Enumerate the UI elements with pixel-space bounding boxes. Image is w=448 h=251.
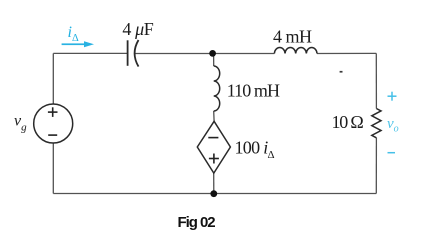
inductor L1 4mH: [274, 47, 317, 53]
svg-text:iΔ: iΔ: [68, 24, 79, 44]
wire middle between inductor and source: [213, 111, 215, 121]
svg-text:4 μF: 4 μF: [122, 19, 153, 39]
dependent source minus sign: [208, 137, 218, 139]
voltage source plus sign: [48, 107, 58, 117]
dependent source plus sign: [209, 154, 219, 164]
wire bottom: [53, 193, 376, 195]
svg-text:100 iΔ: 100 iΔ: [235, 137, 275, 161]
svg-text:110 mH: 110 mH: [227, 81, 280, 101]
wire top right segment: [317, 52, 376, 54]
voltage source minus sign: [48, 134, 57, 136]
wire middle lower: [213, 173, 215, 193]
wire top middle segment: [135, 53, 275, 55]
svg-text:10 Ω: 10 Ω: [332, 112, 364, 132]
resistor R 10ohm: [372, 109, 381, 138]
wire right upper: [375, 53, 377, 108]
wire left lower: [52, 143, 54, 194]
wire right lower: [375, 138, 377, 194]
voltage source Vg circle: [34, 104, 73, 143]
svg-text:vo: vo: [387, 116, 399, 135]
svg-text:vg: vg: [14, 113, 27, 134]
wire middle branch upper: [213, 53, 215, 66]
wire top left segment: [53, 52, 127, 54]
dependent source diamond: [197, 121, 230, 173]
figure caption: [178, 214, 215, 231]
wire left upper: [52, 53, 54, 104]
node junction dot bottom: [210, 190, 217, 197]
svg-text:4 mH: 4 mH: [273, 26, 312, 46]
inductor L2 110mH: [214, 66, 220, 111]
output voltage plus sign: [388, 92, 397, 101]
node junction dot top: [209, 50, 216, 57]
output voltage minus sign: [388, 152, 396, 154]
current arrow: [62, 41, 94, 47]
capacitor C 4uF: [128, 40, 139, 67]
stray mark: [340, 71, 343, 73]
